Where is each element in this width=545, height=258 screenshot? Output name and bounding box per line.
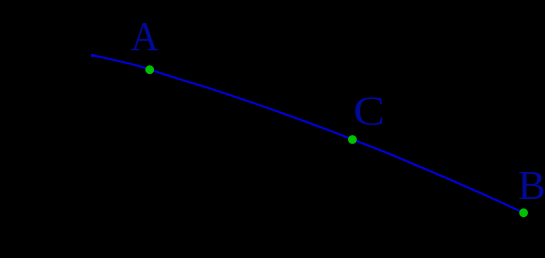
point B (519, 208, 528, 217)
svg-text:C: C (353, 87, 385, 134)
curve through A, C, B (93, 55, 524, 212)
svg-text:A: A (131, 13, 159, 60)
point A (145, 65, 154, 74)
point C (348, 135, 357, 144)
line start stub (91, 54, 94, 57)
svg-text:B: B (518, 162, 545, 208)
